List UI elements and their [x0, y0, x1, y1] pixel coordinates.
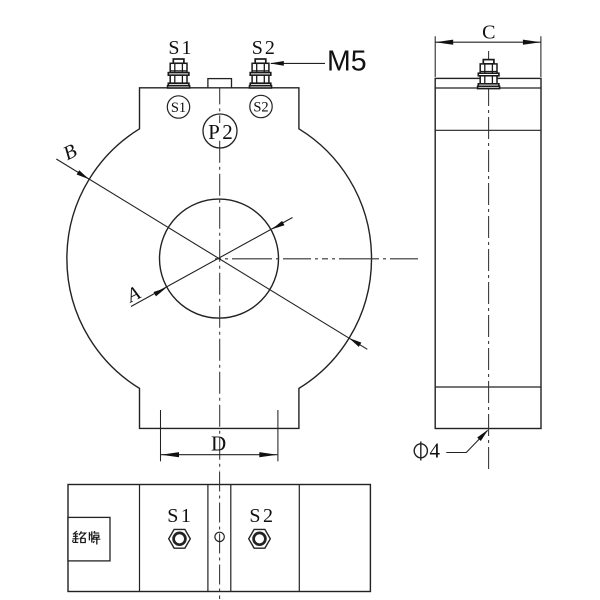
dimension line A (inner circle diameter, diagonal): [131, 218, 293, 307]
bottom view partition line right: [298, 485, 300, 592]
bottom view centerline: [219, 472, 221, 600]
phi4 leader: [446, 431, 487, 453]
side view vertical centerline: [488, 51, 490, 470]
center pin circle (bottom view): [215, 532, 224, 541]
dimension D extension lines: [160, 410, 162, 461]
svg-text:S1: S1: [167, 505, 193, 527]
svg-text:C: C: [482, 22, 495, 44]
circled label S1 on body: [167, 96, 189, 118]
vertical centerline (front view, upper segment through P2 balloon): [219, 88, 221, 123]
svg-text:A: A: [122, 282, 145, 308]
svg-text:S1: S1: [168, 37, 193, 59]
hex nut S2 (bottom view): [249, 529, 271, 548]
inner hole circle: [160, 199, 279, 318]
dimension C line with arrows: [435, 41, 541, 43]
nameplate box: [68, 517, 110, 561]
dimension D line with arrows: [161, 454, 277, 456]
hex nut S1 (bottom view): [169, 529, 191, 548]
svg-text:S2: S2: [252, 37, 277, 59]
svg-text:4: 4: [430, 439, 441, 463]
terminal boss P1 (bump on roof): [208, 79, 232, 88]
M5 leader line and arrow: [271, 62, 325, 64]
svg-text:B: B: [60, 140, 81, 165]
balloon P2: [203, 114, 237, 148]
svg-text:D: D: [211, 432, 226, 456]
terminal screw S1 (front): [168, 59, 190, 88]
circled label S2 on body: [250, 95, 272, 117]
label phi4 (drawn phi symbol + 4): [414, 444, 427, 458]
dimension C extension lines: [434, 36, 436, 77]
svg-text:S1: S1: [171, 100, 186, 116]
svg-text:P: P: [208, 120, 220, 144]
svg-text:S2: S2: [253, 100, 268, 116]
side view upper line: [435, 129, 541, 131]
svg-text:S2: S2: [249, 505, 275, 527]
side view body rectangle: [435, 78, 541, 428]
terminal screw (side view): [478, 60, 500, 89]
bottom view slot line right: [230, 485, 232, 592]
horizontal centerline (front view): [215, 258, 419, 260]
transformer body outline (front view): [67, 88, 372, 429]
bottom view slot line left: [207, 485, 209, 592]
bottom view partition line left: [139, 485, 141, 592]
bottom view outline: [68, 485, 370, 592]
vertical centerline (front view): [219, 141, 221, 471]
svg-text:M5: M5: [327, 46, 367, 78]
side view lower line: [435, 386, 541, 388]
side view top band line: [435, 87, 541, 89]
nameplate hanzi 铭牌: [72, 531, 100, 544]
terminal screw S2 (front): [250, 59, 272, 88]
svg-text:2: 2: [222, 120, 233, 144]
dimension line B (big circle diameter, diagonal): [56, 159, 367, 349]
